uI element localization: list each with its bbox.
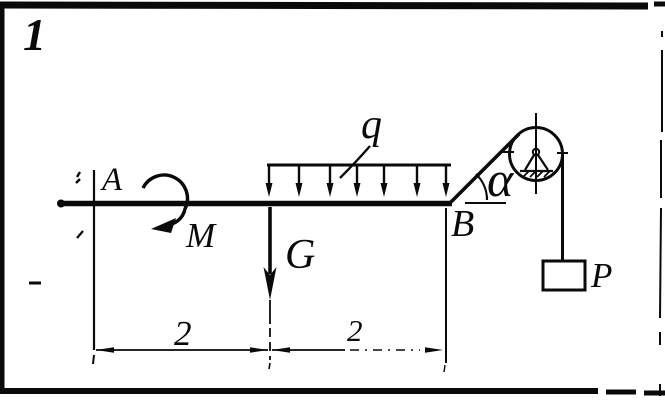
scan marks [76,172,80,183]
angle alpha arc [476,174,487,200]
border bottom [2,388,598,394]
dimension line 2 [272,349,345,351]
dimension line 1 [96,349,268,351]
svg-text:A: A [100,162,123,198]
border right [660,31,662,396]
svg-text:G: G [285,232,315,278]
svg-text:1: 1 [23,9,46,60]
distributed load q top line [267,164,451,167]
svg-text:P: P [590,256,612,295]
svg-text:B: B [451,203,474,245]
border top [0,5,648,6]
angle alpha reference line [465,202,506,204]
moment M arc [143,175,187,225]
beam AB [60,201,452,207]
rope to weight P [561,155,564,261]
q leader line [340,146,370,178]
border left [0,2,5,394]
svg-text:q: q [361,102,382,148]
support line at A [93,170,95,350]
force G [268,207,272,274]
svg-text:2: 2 [347,313,363,348]
pulley circle [510,128,563,181]
distributed load arrows [269,165,446,186]
pulley pin support [533,149,539,155]
dimension extension line at B [445,208,447,363]
weight P block [543,261,585,290]
svg-text:2: 2 [174,314,192,353]
pulley centerlines [535,113,537,194]
dimension extension line at mid [269,300,271,324]
cable from B to pulley [451,134,519,202]
svg-text:M: M [185,216,217,255]
